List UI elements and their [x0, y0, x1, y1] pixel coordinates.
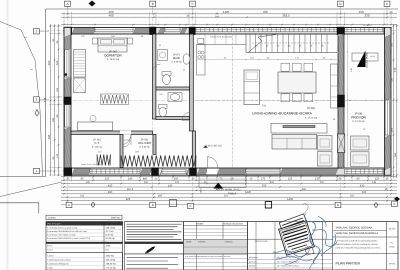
svg-text:S.construita la sol cu tinda: S.construita la sol cu tinda — [47, 259, 71, 262]
signature table lower rows — [184, 262, 248, 264]
svg-text:1460: 1460 — [287, 198, 293, 201]
kitchen side counter — [197, 45, 205, 76]
top wall glazing living with mullions — [195, 28, 337, 32]
pridvor interior dim — [347, 35, 349, 168]
exterior wall bottom band — [64, 168, 391, 175]
svg-text:B: B — [152, 203, 154, 207]
svg-text:S: 4.95 mp: S: 4.95 mp — [171, 60, 182, 63]
sofa — [272, 135, 317, 150]
svg-text:VASILIVAL GEORGIANA-GABRIELA: VASILIVAL GEORGIANA-GABRIELA — [336, 232, 379, 235]
grid axis 3 — [40, 30, 397, 32]
detail square marker bottom 2 — [265, 202, 271, 209]
column A1 — [64, 168, 72, 176]
svg-text:SANTIOR (DRUM), CARTIER (JUDAR: SANTIOR (DRUM), CARTIER (JUDARES), SIMIL… — [336, 243, 379, 246]
svg-text:460: 460 — [108, 191, 113, 194]
exterior wall left band — [64, 27, 71, 175]
svg-text:560: 560 — [302, 188, 307, 191]
svg-text:±0.45: ±0.45 — [370, 55, 375, 58]
svg-text:AP-02: AP-02 — [389, 262, 396, 265]
svg-text:430: 430 — [358, 10, 363, 14]
staircase cut line — [248, 35, 276, 53]
svg-text:1000 mp: 1000 mp — [106, 255, 115, 258]
svg-text:155: 155 — [288, 178, 293, 181]
svg-text:(P-02): (P-02) — [307, 107, 315, 110]
column B1 — [152, 168, 159, 176]
pen icon — [145, 245, 156, 254]
bottom dimension lines — [61, 176, 397, 178]
bottom wall window hol — [90, 169, 140, 174]
pridvor bench top — [352, 53, 378, 61]
black diamond marker bottom right — [394, 197, 400, 202]
top dimension ticks row1 — [67, 13, 388, 15]
grid bubble A top — [65, 1, 71, 6]
svg-text:182: 182 — [350, 195, 355, 198]
svg-text:E: E — [393, 202, 395, 206]
svg-text:97.25 mp: 97.25 mp — [106, 237, 116, 240]
door arc bedroom — [121, 134, 132, 145]
svg-text:EXPERT: EXPERT — [198, 241, 206, 244]
staircase treads — [250, 35, 327, 53]
exterior wall right band — [385, 27, 392, 175]
grid bubble D bottom — [335, 202, 341, 207]
armchair living 1 — [318, 136, 333, 151]
left dimension line 3 — [58, 24, 60, 176]
detail square marker bottom — [170, 200, 177, 207]
svg-text:120: 120 — [56, 60, 59, 65]
interior wall hol-dep vertical — [153, 134, 156, 154]
right wall window — [385, 100, 389, 135]
svg-text:S: 16.00 mp: S: 16.00 mp — [107, 58, 120, 61]
svg-text:B: B — [152, 2, 154, 6]
lot boundary left line — [45, 9, 47, 177]
svg-text:215: 215 — [105, 178, 110, 181]
svg-text:1425: 1425 — [245, 191, 251, 194]
radiator zigzag hol band — [121, 156, 196, 167]
grid bubble E top — [384, 1, 390, 6]
top dimension ticks row2 — [67, 16, 388, 18]
svg-text:174.10 mp: 174.10 mp — [106, 267, 117, 270]
svg-text:S.construita desfasurata: S.construita desfasurata — [47, 263, 69, 266]
svg-text:C.U.T.: C.U.T. — [47, 248, 53, 251]
top dimension line 3 — [61, 24, 397, 26]
drain dot on left wall — [65, 73, 68, 76]
grid bubble 1 left — [34, 168, 40, 173]
signature table gray band — [184, 239, 248, 254]
svg-text:90: 90 — [159, 44, 161, 47]
left extension lines — [49, 26, 62, 175]
svg-text:300: 300 — [47, 60, 51, 65]
svg-text:A4-220: A4-220 — [389, 228, 396, 231]
toilet 2 — [159, 105, 168, 109]
top wall pridvor rail — [345, 28, 385, 32]
top wall hatch segments — [72, 27, 96, 34]
grid bubble A bottom — [66, 202, 72, 207]
pridvor armchair 2 — [351, 152, 370, 167]
svg-text:S.construita DEZMEMBRATA cu AN: S.construita DEZMEMBRATA cu ANEXA + clad… — [47, 230, 87, 233]
bottom wall pridvor open edge — [345, 169, 385, 174]
svg-text:148: 148 — [372, 181, 377, 184]
svg-text:P.O.T.: P.O.T. — [47, 245, 53, 248]
signature table columns — [195, 222, 197, 270]
grid bubble C top — [190, 1, 196, 6]
boundary survey tick — [24, 37, 38, 110]
section marker diamond top — [89, 1, 96, 7]
top dimension line 1 — [61, 13, 397, 15]
svg-text:sef proiect: sef proiect — [249, 256, 258, 259]
areas table header band — [46, 222, 123, 226]
cabinet along wall D — [331, 64, 338, 108]
section diamond left — [35, 110, 39, 116]
column A2 — [64, 97, 72, 105]
grid bubble 2 left — [34, 97, 40, 102]
svg-text:arh. Franciz CRETU BULZ: arh. Franciz CRETU BULZ — [277, 265, 300, 268]
nightstand right — [128, 38, 133, 44]
tinda porch outline — [199, 175, 246, 188]
svg-text:118: 118 — [80, 195, 85, 198]
svg-text:NUME: NUME — [197, 223, 204, 226]
svg-text:S: 4.95 mp: S: 4.95 mp — [92, 145, 103, 148]
armchair living 2 — [318, 152, 333, 167]
notes box — [125, 222, 184, 242]
svg-text:715: 715 — [43, 97, 47, 102]
dining chairs top — [281, 63, 290, 71]
lot boundary bottom-left line — [0, 176, 46, 178]
door arc CT — [123, 140, 130, 147]
svg-text:700: 700 — [262, 184, 267, 187]
svg-text:TINDA: TINDA — [228, 192, 237, 196]
scan fold line left — [7, 0, 9, 270]
svg-text:430: 430 — [360, 184, 365, 187]
svg-text:A: A — [66, 2, 68, 6]
nightstand left — [92, 38, 97, 44]
interior wall living left lower — [192, 131, 195, 168]
svg-text:330: 330 — [364, 14, 369, 18]
right dimension line 2 — [396, 24, 398, 178]
bottom dimension ticks rows — [63, 176, 392, 178]
column E3 crossed — [384, 28, 391, 34]
top wall window bedroom — [95, 28, 133, 32]
door living from tinda — [207, 157, 218, 168]
top extension lines — [64, 12, 391, 25]
left dimension line 2 — [54, 24, 56, 176]
svg-text:P.O.T.+C.U.T.: P.O.T.+C.U.T. — [48, 223, 62, 226]
areas table divider dark — [46, 242, 123, 244]
svg-text:180: 180 — [86, 181, 91, 184]
level marker — [203, 146, 208, 148]
svg-text:C.T.: C.T. — [94, 141, 99, 145]
svg-text:SAT/TUR DOM, UL/DR NR.50 SANTI: SAT/TUR DOM, UL/DR NR.50 SANTIOANA-BISER… — [336, 240, 379, 243]
svg-text:PRIDVOR: PRIDVOR — [351, 115, 366, 119]
svg-text:SPECIFICATIE: SPECIFICATIE — [255, 240, 269, 243]
svg-text:120: 120 — [159, 93, 162, 96]
grid axis B — [152, 6, 154, 202]
svg-text:±0.00 (+187.25): ±0.00 (+187.25) — [205, 144, 222, 147]
svg-text:120: 120 — [56, 87, 59, 92]
svg-text:S: 4.95 mp: S: 4.95 mp — [139, 145, 150, 148]
title block verticals — [255, 222, 257, 270]
bottom bubble baseline — [61, 204, 397, 206]
svg-text:60: 60 — [183, 69, 185, 72]
svg-text:700: 700 — [262, 10, 267, 14]
property boundary diagonal left — [21, 30, 43, 176]
svg-text:desenat: desenat — [249, 265, 256, 268]
column E1 crossed — [384, 169, 391, 175]
svg-text:E: E — [386, 2, 388, 6]
bedroom rug zigzag — [101, 94, 129, 105]
svg-text:140: 140 — [128, 178, 133, 181]
dining table — [278, 72, 316, 93]
interior wall bath bottom — [156, 117, 190, 120]
interior wall bath middle — [156, 87, 190, 90]
svg-text:170: 170 — [56, 153, 59, 158]
pridvor armchair 1 — [351, 136, 370, 150]
acces arrow — [214, 183, 224, 189]
property boundary diagonal bottom-left — [0, 182, 62, 197]
svg-text:A: A — [68, 203, 70, 207]
svg-text:ACCES MOBIL: ACCES MOBIL — [366, 51, 369, 67]
kitchen counter top run — [197, 44, 246, 46]
svg-text:CERINTA: CERINTA — [225, 241, 234, 244]
lower info box — [125, 254, 184, 270]
column A3 — [64, 27, 72, 35]
svg-text:8.10 mp: 8.10 mp — [106, 234, 115, 237]
grid axis A — [67, 6, 69, 202]
grid axis E — [386, 6, 388, 202]
grid bubble B top — [150, 1, 156, 6]
svg-text:S: 12.40 mp: S: 12.40 mp — [352, 120, 365, 123]
bottom extension lines — [64, 176, 391, 182]
svg-text:260: 260 — [144, 181, 149, 184]
stamp ghost frame rotated — [279, 214, 308, 234]
svg-text:140: 140 — [168, 184, 173, 187]
svg-text:716: 716 — [262, 105, 267, 108]
top bubble leader stubs — [68, 7, 388, 14]
kitchen burners — [198, 51, 201, 54]
lot boundary top line — [46, 8, 399, 10]
beam dashed line living 2 — [232, 34, 234, 168]
svg-text:S.construita DESFASURATA cu ca: S.construita DESFASURATA cu casa + clad.… — [47, 237, 90, 240]
svg-text:240: 240 — [215, 16, 220, 19]
right dimension ticks — [393, 25, 395, 176]
interior wall CT-hol vertical — [120, 134, 123, 167]
svg-text:HOL+DEP: HOL+DEP — [138, 141, 152, 145]
left wall hatch — [64, 35, 71, 170]
svg-text:150.10mp: 150.10mp — [106, 226, 117, 229]
svg-text:925: 925 — [126, 198, 131, 201]
bed — [98, 38, 127, 52]
areas table frame — [46, 222, 123, 270]
interior wall bath-living vertical — [190, 34, 194, 131]
dresser low cabinet — [74, 78, 86, 93]
right wall hatch — [385, 35, 392, 170]
areas table divider 2 — [46, 252, 123, 254]
door bath — [182, 113, 190, 121]
staircase left edge — [245, 35, 247, 53]
left dimension ticks — [50, 25, 52, 172]
svg-text:S.construita ANEXA cu garaj si: S.construita ANEXA cu garaj si mag. — [47, 226, 78, 229]
left dimension line 1 — [50, 24, 52, 176]
svg-text:420: 420 — [108, 184, 113, 187]
verificator signature scribble small — [302, 204, 308, 215]
signature table frame — [184, 222, 248, 270]
bottom wall door opening tinda — [207, 169, 217, 175]
svg-text:1425: 1425 — [223, 10, 230, 14]
svg-text:395: 395 — [47, 134, 51, 139]
svg-text:CONF.DE, TIMOLARE TIMCLORIO(AG: CONF.DE, TIMOLARE TIMCLORIO(AGNES) CU ST… — [336, 246, 382, 249]
desk — [78, 122, 113, 131]
stamp vizat spre neschimbare rotated — [279, 221, 315, 255]
left wall window 1 — [65, 50, 69, 78]
signature table rows upper — [184, 228, 248, 230]
top dimension ticks row3 — [63, 24, 392, 26]
staircase walk line — [252, 42, 330, 44]
lot boundary lower line — [0, 203, 39, 214]
svg-text:715: 715 — [393, 67, 397, 72]
bath sink — [183, 54, 190, 64]
svg-text:S.construita CASA NOUA cu tind: S.construita CASA NOUA cu tinda — [47, 234, 77, 237]
column C1 — [190, 168, 197, 176]
svg-text:Inv. 45cm: Inv. 45cm — [363, 24, 372, 27]
svg-text:125: 125 — [175, 181, 180, 184]
TV unit — [271, 124, 327, 134]
grid axis D — [340, 6, 342, 202]
svg-text:proiectat: proiectat — [249, 260, 257, 263]
svg-text:362.5: 362.5 — [127, 188, 134, 191]
site area row box — [46, 215, 122, 219]
bottom wall window living — [246, 168, 280, 175]
top wall window bath — [165, 28, 180, 32]
left wall window 2 — [65, 105, 69, 128]
bottom wall hatch segments — [72, 168, 91, 175]
dining chairs bottom — [281, 94, 290, 102]
grid axis 1 — [40, 170, 397, 172]
kitchen sink — [198, 39, 204, 44]
svg-text:PLAN PARTER: PLAN PARTER — [336, 261, 361, 265]
title block horizontals — [333, 236, 398, 238]
svg-text:VERIF.: VERIF. — [186, 241, 192, 244]
tinda steps — [199, 178, 246, 180]
svg-text:Garaj: Porti Sectionala: Garaj: Porti Sectionala — [210, 35, 233, 38]
svg-text:LIVING+DINING+BUCATARIE+SCARA: LIVING+DINING+BUCATARIE+SCARA — [252, 112, 312, 116]
svg-text:300: 300 — [52, 117, 55, 122]
grid bubble 3 left — [34, 29, 40, 34]
column C3 — [189, 27, 195, 35]
svg-text:332: 332 — [270, 181, 275, 184]
wall D soba block — [337, 134, 345, 153]
wall D living-pridvor — [338, 34, 344, 168]
svg-text:60: 60 — [357, 178, 360, 181]
title block frame — [248, 222, 399, 270]
svg-text:362.5: 362.5 — [282, 14, 290, 18]
grid axis 2 — [40, 100, 397, 102]
svg-text:PL.: PL. — [390, 242, 393, 245]
right dimension line 1 — [393, 24, 395, 178]
exterior wall top band — [64, 27, 391, 34]
radiator zigzag CT — [97, 155, 111, 166]
svg-text:VASILIVAL GEORGE-BOGDAN: VASILIVAL GEORGE-BOGDAN — [336, 226, 373, 229]
svg-text:BAIE: BAIE — [173, 56, 180, 60]
staircase bottom edge — [246, 52, 337, 54]
washing machine — [158, 50, 168, 61]
wardrobe — [74, 50, 86, 78]
interior wall bedroom-bath vertical — [153, 34, 156, 119]
column B3 — [150, 27, 157, 35]
interior wall bedroom bottom — [71, 131, 153, 134]
signature scribble blue lower — [273, 246, 309, 257]
svg-text:S: 47.10 mp: S: 47.10 mp — [305, 117, 318, 120]
signature scribble blue main — [305, 221, 319, 264]
pridvor horizontal dim — [344, 100, 384, 102]
notes box bottom bar — [125, 242, 184, 244]
svg-text:DTAC: DTAC — [389, 246, 395, 249]
door opening bedroom — [120, 131, 131, 135]
property boundary diagonal top-left — [0, 22, 21, 31]
wall D solid chunk with column — [337, 95, 344, 107]
grid bubble D top — [338, 1, 344, 6]
top dimension line 2 — [61, 16, 397, 18]
svg-text:DORMITOR: DORMITOR — [104, 53, 122, 57]
column D3 — [337, 27, 345, 35]
diamond marker bottom 2 — [374, 202, 378, 207]
signature table long text row — [184, 253, 248, 255]
svg-text:262: 262 — [320, 181, 325, 184]
svg-text:195.80 mp: 195.80 mp — [106, 263, 117, 266]
areas table pct column — [122, 253, 124, 270]
toilet 1 — [162, 72, 171, 76]
pen box — [125, 244, 184, 254]
soba black triangle — [357, 51, 366, 68]
grid axis C — [192, 6, 194, 202]
svg-text:170: 170 — [261, 178, 266, 181]
svg-text:S.teren: S.teren — [47, 255, 53, 258]
svg-text:41.7 mp: 41.7 mp — [106, 230, 115, 233]
svg-text:95: 95 — [81, 178, 84, 181]
grid bubble B bottom — [150, 202, 156, 207]
areas table value column line — [103, 222, 105, 270]
svg-text:1000 mp: 1000 mp — [111, 217, 121, 220]
interior dim line living — [197, 59, 337, 61]
door arc bath upper — [153, 64, 161, 72]
svg-text:385: 385 — [158, 195, 163, 198]
svg-text:360: 360 — [394, 152, 397, 157]
svg-text:460: 460 — [108, 14, 113, 18]
svg-text:1402: 1402 — [200, 188, 203, 194]
grid bubble C bottom — [188, 203, 194, 208]
svg-text:330: 330 — [362, 191, 367, 194]
svg-text:S.teren: S.teren — [48, 217, 56, 220]
grid bubble E bottom — [392, 201, 398, 206]
diamond marker bottom — [91, 202, 95, 207]
beam dashed line living — [197, 100, 337, 102]
svg-text:SEMNATURA/DESEN: SEMNATURA/DESEN — [223, 223, 243, 226]
lower sink counter — [168, 93, 182, 102]
bottom wall window 2 — [162, 169, 186, 174]
svg-text:4.9%: 4.9% — [106, 245, 111, 248]
kitchen island — [244, 70, 260, 105]
svg-text:150.10mp: 150.10mp — [106, 259, 117, 262]
svg-text:S.utila: S.utila — [47, 267, 53, 270]
stamp corner tab — [305, 247, 314, 255]
